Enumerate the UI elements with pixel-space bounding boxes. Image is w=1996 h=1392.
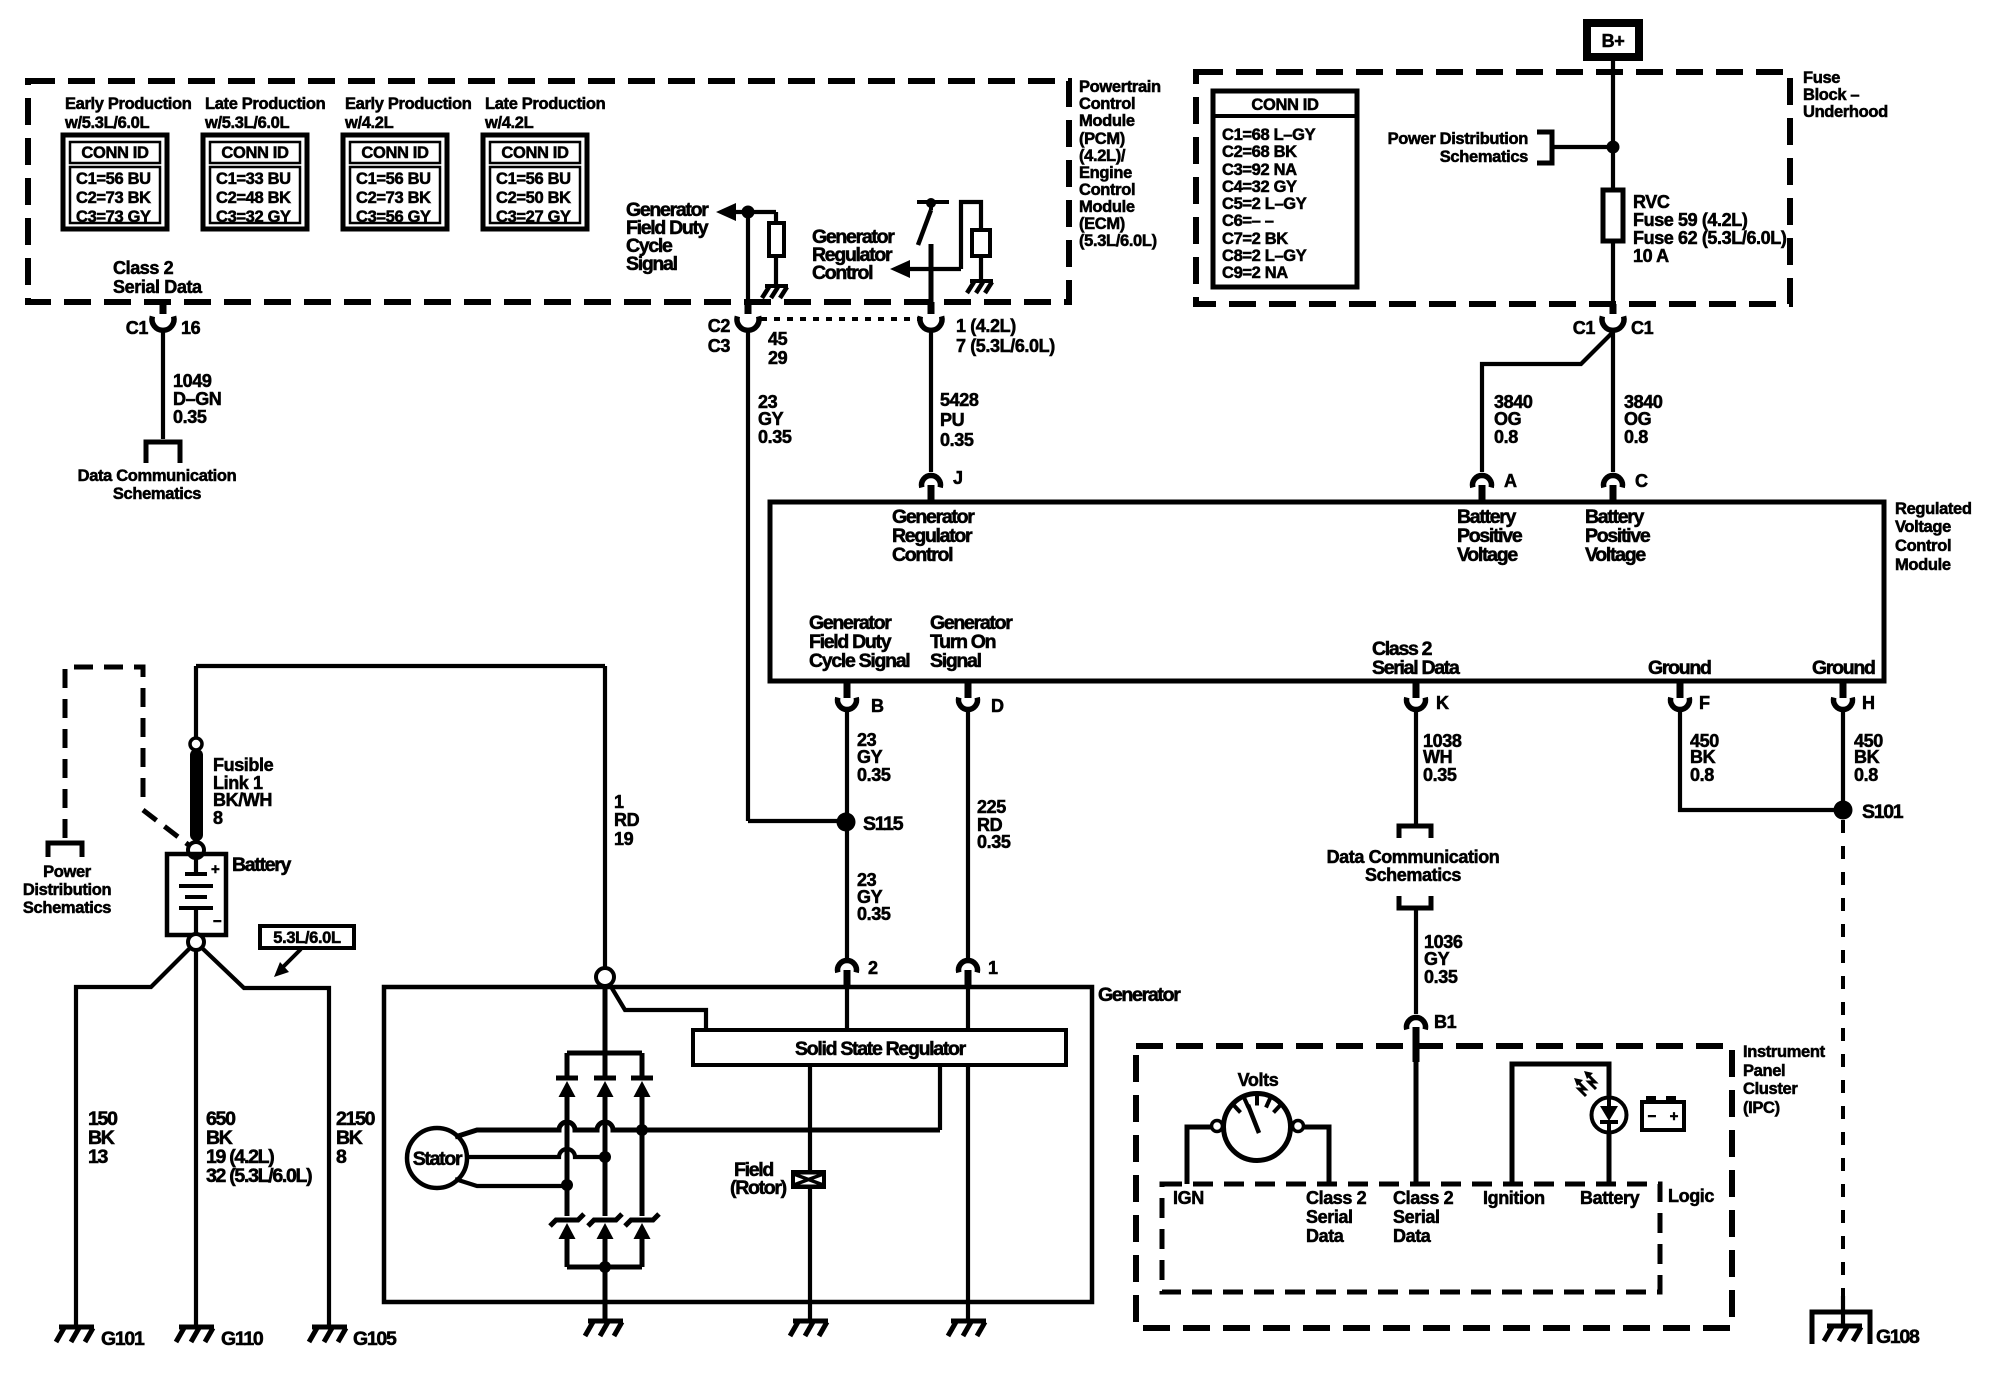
arrow to Generator Regulator Control: [890, 260, 910, 278]
svg-text:B+: B+: [1602, 31, 1625, 51]
node: ring terminal at battery positive: [188, 842, 204, 858]
svg-text:Control: Control: [1895, 537, 1951, 555]
label: Class 2 Serial Data (B1): [1393, 1188, 1454, 1246]
svg-text:PU: PU: [940, 410, 964, 430]
PCM/ECM module dashed box: [28, 81, 1069, 302]
svg-text:8: 8: [336, 1146, 347, 1168]
svg-text:BK: BK: [1690, 747, 1716, 767]
battery B1: [167, 854, 226, 935]
node: ring terminal at generator output: [596, 968, 614, 986]
pin C (RVC module): [1604, 471, 1649, 502]
label: Fuse Block - Underhood: [1803, 69, 1888, 121]
wire regulator to ground (right): [966, 1065, 970, 1321]
off-page bracket (power distribution, battery): [48, 843, 82, 857]
wire from C2/C3 leg over to S115: [748, 819, 846, 823]
dashed leader to fusible link: [143, 810, 190, 846]
svg-text:Module: Module: [1079, 112, 1135, 130]
svg-text:0.8: 0.8: [1854, 765, 1878, 785]
power distribution dashed callout box (battery): [65, 667, 143, 838]
label: Late Production w/4.2L: [484, 95, 606, 132]
svg-text:Class 2: Class 2: [1393, 1188, 1454, 1208]
svg-text:GY: GY: [758, 409, 784, 429]
svg-text:Schematics: Schematics: [1440, 148, 1528, 166]
svg-text:19: 19: [614, 829, 634, 849]
svg-text:C2=73 BK: C2=73 BK: [356, 189, 431, 207]
svg-text:CONN ID: CONN ID: [81, 144, 149, 162]
wire B+ down into fuse block: [1611, 61, 1615, 147]
label: Regulated Voltage Control Module: [1895, 500, 1972, 574]
wire split to pin A: [1482, 332, 1613, 472]
svg-text:Module: Module: [1895, 556, 1951, 574]
wire gauge right to logic (Class 2): [1303, 1127, 1329, 1184]
label: Data Communication Schematics (left): [78, 467, 237, 503]
label: 650 BK 19 (4.2L) 32 (5.3L/6.0L): [206, 1108, 312, 1187]
svg-text:Underhood: Underhood: [1803, 103, 1888, 121]
wire 450 BK 0.8 (pin H to S101): [1841, 710, 1845, 804]
svg-text:0.35: 0.35: [1423, 765, 1457, 785]
svg-text:0.8: 0.8: [1494, 427, 1518, 447]
zener diode D5 (lower middle): [588, 1214, 622, 1267]
svg-text:IGN: IGN: [1173, 1188, 1204, 1208]
stator phase wire 3: [455, 1179, 567, 1186]
label: Generator Regulator Control (PCM): [812, 226, 895, 284]
svg-text:w/5.3L/6.0L: w/5.3L/6.0L: [64, 114, 149, 132]
svg-text:13: 13: [88, 1146, 109, 1168]
svg-text:Serial Data: Serial Data: [1372, 657, 1460, 679]
svg-text:w/5.3L/6.0L: w/5.3L/6.0L: [204, 114, 289, 132]
node: junction at B+ feed: [1607, 141, 1620, 154]
svg-text:29: 29: [768, 348, 788, 368]
svg-text:K: K: [1436, 693, 1449, 713]
fuse RVC Fuse 59/62 10A: [1603, 190, 1623, 241]
svg-text:1: 1: [988, 958, 998, 978]
wire battery positive feed (top run): [196, 664, 605, 668]
ground G108: [1812, 1312, 1920, 1348]
node: splice S101: [1834, 801, 1853, 820]
svg-text:B1: B1: [1434, 1012, 1457, 1032]
svg-text:Data Communication: Data Communication: [78, 467, 237, 485]
svg-text:C5=2 L–GY: C5=2 L–GY: [1222, 195, 1307, 213]
svg-text:0.35: 0.35: [857, 765, 891, 785]
svg-text:C1: C1: [1573, 318, 1596, 338]
svg-text:Data: Data: [1306, 1226, 1345, 1246]
svg-text:(IPC): (IPC): [1743, 1099, 1780, 1117]
svg-text:Voltage: Voltage: [1457, 544, 1518, 566]
wire 450 BK 0.8 (pin F to S101): [1680, 710, 1837, 810]
label: 5428 PU 0.35: [940, 390, 979, 450]
svg-text:Serial: Serial: [1306, 1207, 1353, 1227]
svg-text:Power: Power: [43, 863, 92, 881]
LED indicator lamp: [1592, 1096, 1627, 1133]
label: Early Production w/5.3L/6.0L: [64, 95, 192, 132]
svg-text:C3: C3: [708, 336, 731, 356]
svg-text:C8=2 L–GY: C8=2 L–GY: [1222, 247, 1307, 265]
pin H (RVC module): [1834, 681, 1875, 713]
wire 1036 GY 0.35: [1414, 908, 1418, 1014]
wire 1038 WH 0.35 (pin K down): [1414, 710, 1418, 824]
label: RVC Fuse 59 (4.2L) Fuse 62 (5.3L/6.0L) 10 A: [1633, 192, 1787, 266]
svg-text:Early Production: Early Production: [345, 95, 472, 113]
off-page bracket (data communication, lower): [1399, 896, 1431, 908]
svg-text:S101: S101: [1862, 801, 1904, 823]
wire ignition loop to LED: [1512, 1064, 1609, 1184]
label: 225 RD 0.35: [977, 797, 1011, 852]
svg-text:C1=33 BU: C1=33 BU: [216, 170, 291, 188]
node: junction on field duty wire: [742, 206, 755, 219]
Logic dashed box (IPC): [1162, 1184, 1660, 1292]
svg-text:5428: 5428: [940, 390, 979, 410]
LED illumination arrows: [1574, 1071, 1596, 1096]
svg-text:Class 2: Class 2: [1306, 1188, 1367, 1208]
svg-text:Control: Control: [892, 544, 953, 566]
svg-text:45: 45: [768, 329, 788, 349]
svg-text:Panel: Panel: [1743, 1062, 1785, 1080]
fusible link 1 BK/WH 8: [190, 749, 203, 841]
CONN ID table (fuse block): [1213, 91, 1357, 287]
connector pin B1 (IPC): [1407, 1012, 1457, 1062]
svg-text:Fusible: Fusible: [213, 755, 274, 775]
svg-text:Power Distribution: Power Distribution: [1388, 130, 1529, 148]
svg-text:Distribution: Distribution: [23, 881, 112, 899]
label: Generator Field Duty Cycle Signal (PCM): [626, 199, 709, 275]
svg-text:G101: G101: [101, 1328, 145, 1350]
label: 3840 OG 0.8 (left): [1494, 392, 1533, 447]
svg-text:Fuse 59 (4.2L): Fuse 59 (4.2L): [1633, 210, 1748, 230]
resistor R2 (regulator control): [961, 202, 990, 280]
wire 3840 OG 0.8 to pin C: [1611, 332, 1615, 472]
label: Generator Turn On Signal (module): [930, 612, 1013, 672]
svg-text:B: B: [871, 696, 884, 716]
svg-text:225: 225: [977, 797, 1006, 817]
svg-text:w/4.2L: w/4.2L: [484, 114, 534, 132]
Generator box G1: [384, 987, 1092, 1302]
svg-text:C2=48 BK: C2=48 BK: [216, 189, 291, 207]
wire bracket to junction: [1553, 145, 1613, 149]
zener diode D6 (lower right): [625, 1214, 659, 1267]
svg-text:C1=56 BU: C1=56 BU: [356, 170, 431, 188]
svg-text:C3=27 GY: C3=27 GY: [496, 208, 571, 226]
svg-text:RVC: RVC: [1633, 192, 1670, 212]
label: Late Production w/5.3L/6.0L: [204, 95, 326, 132]
svg-text:w/4.2L: w/4.2L: [344, 114, 394, 132]
wire gauge left to logic (IGN): [1187, 1127, 1212, 1184]
svg-text:Ignition: Ignition: [1483, 1188, 1545, 1208]
svg-text:Powertrain: Powertrain: [1079, 78, 1161, 96]
label: 450 BK 0.8 (pin H): [1854, 731, 1883, 785]
off-page bracket to Data Communication Schematics: [146, 442, 180, 463]
svg-text:Late Production: Late Production: [205, 95, 326, 113]
wire junction to fuse: [1611, 147, 1615, 190]
svg-text:Fuse 62 (5.3L/6.0L): Fuse 62 (5.3L/6.0L): [1633, 228, 1787, 248]
ground G101: [56, 1327, 145, 1350]
zener diode D4 (lower left): [550, 1214, 584, 1267]
stator phase wire 2 (with hop): [467, 1149, 605, 1157]
svg-text:C1=68 L–GY: C1=68 L–GY: [1222, 126, 1316, 144]
svg-text:+: +: [1670, 1108, 1679, 1125]
svg-text:(4.2L)/: (4.2L)/: [1079, 147, 1126, 165]
svg-text:Ground: Ground: [1812, 657, 1875, 679]
ground (generator case, rectifier): [585, 1321, 623, 1336]
Fuse Block - Underhood dashed box: [1196, 72, 1790, 304]
arrow to Generator Field Duty Cycle Signal: [716, 203, 736, 221]
wire generator output to regulator: [610, 985, 706, 1030]
wire 23 GY 0.35 (pin B to S115): [845, 710, 849, 958]
svg-text:Data: Data: [1393, 1226, 1432, 1246]
field rotor winding L1: [791, 1170, 826, 1189]
dotted tie line between connectors: [761, 317, 918, 321]
svg-text:BK: BK: [1854, 747, 1880, 767]
wire pin 2 into regulator: [845, 987, 849, 1030]
svg-text:1 (4.2L): 1 (4.2L): [956, 316, 1016, 336]
svg-text:A: A: [1504, 471, 1517, 491]
svg-text:GY: GY: [1424, 949, 1450, 969]
label: Power Distribution Schematics (battery): [23, 863, 112, 917]
resistor R1 (field duty pull-up): [774, 212, 778, 223]
svg-text:10 A: 10 A: [1633, 246, 1669, 266]
svg-text:Logic: Logic: [1668, 1186, 1714, 1206]
svg-text:0.35: 0.35: [758, 427, 792, 447]
svg-text:RD: RD: [614, 810, 640, 830]
svg-text:−: −: [213, 913, 222, 930]
svg-text:0.35: 0.35: [977, 832, 1011, 852]
svg-text:F: F: [1699, 693, 1710, 713]
svg-text:H: H: [1862, 693, 1875, 713]
label: Class 2 Serial Data (module): [1372, 638, 1460, 679]
svg-text:WH: WH: [1423, 747, 1452, 767]
CONN ID table 4 (Late Production w/4.2L): [483, 135, 587, 229]
svg-text:(PCM): (PCM): [1079, 130, 1125, 148]
wire S101 to G108 (dashed): [1841, 820, 1845, 1296]
svg-text:8: 8: [213, 808, 223, 828]
svg-text:C1=56 BU: C1=56 BU: [76, 170, 151, 188]
label: Field (Rotor): [730, 1159, 787, 1199]
rectifier top bar: [567, 1051, 642, 1056]
wire regulator to field rotor: [808, 1065, 812, 1170]
svg-text:Cluster: Cluster: [1743, 1080, 1798, 1098]
label: 23 GY 0.35 (lower): [857, 870, 891, 924]
wire field rotor to ground: [808, 1189, 812, 1321]
Regulated Voltage Control Module box U1: [770, 502, 1884, 681]
battery telltale symbol: [1642, 1096, 1684, 1130]
svg-text:Control: Control: [812, 262, 873, 284]
stator phase wire 1 (with hops): [455, 1122, 940, 1137]
svg-text:Battery: Battery: [1580, 1188, 1640, 1208]
wire 650 BK (battery to G110): [194, 950, 198, 1327]
svg-text:−: −: [1648, 1108, 1657, 1125]
svg-text:Voltage: Voltage: [1895, 518, 1951, 536]
svg-text:Battery: Battery: [232, 854, 292, 876]
label: 23 GY 0.35: [758, 392, 792, 447]
svg-text:C3=73 GY: C3=73 GY: [76, 208, 151, 226]
node: junction phase 1 at diode D3: [636, 1124, 648, 1136]
svg-text:C4=32 GY: C4=32 GY: [1222, 178, 1297, 196]
svg-text:Signal: Signal: [930, 650, 982, 672]
node: splice S115: [837, 813, 856, 832]
wire from arrow to resistor: [733, 210, 776, 214]
svg-text:GY: GY: [857, 747, 883, 767]
diode D2 (upper middle): [594, 1053, 616, 1216]
node: ring terminal at battery negative: [188, 934, 204, 950]
svg-text:Solid State Regulator: Solid State Regulator: [795, 1038, 967, 1060]
label: Class 2 Serial Data (volts gauge): [1306, 1188, 1367, 1246]
switch SW (regulator control driver): [917, 198, 949, 245]
svg-text:S115: S115: [863, 813, 904, 835]
wire rectifier to generator case ground: [603, 1267, 608, 1321]
off-page bracket (data communication, upper): [1399, 826, 1431, 838]
svg-text:C2=73 BK: C2=73 BK: [76, 189, 151, 207]
svg-text:C3=32 GY: C3=32 GY: [216, 208, 291, 226]
label: 1036 GY 0.35: [1424, 932, 1463, 987]
svg-text:Block –: Block –: [1803, 86, 1859, 104]
B+ power feed box: [1587, 23, 1639, 57]
pin B (RVC module): [838, 681, 885, 716]
svg-text:Signal: Signal: [626, 253, 678, 275]
svg-text:Voltage: Voltage: [1585, 544, 1646, 566]
label: Battery Positive Voltage (pin A): [1457, 506, 1523, 566]
svg-text:Schematics: Schematics: [113, 485, 201, 503]
svg-text:0.8: 0.8: [1690, 765, 1714, 785]
Solid State Regulator box: [693, 1030, 1066, 1065]
pin K (RVC module): [1407, 681, 1450, 713]
label: Class 2 Serial Data (PCM): [113, 258, 203, 297]
ground (generator case, field): [790, 1321, 828, 1336]
pin A (RVC module): [1473, 471, 1518, 502]
ground (PCM internal, regulator control): [967, 281, 993, 293]
svg-text:G105: G105: [353, 1328, 397, 1350]
label: 23 GY 0.35 (upper): [857, 730, 891, 785]
svg-text:C6=– –: C6=– –: [1222, 212, 1274, 230]
svg-text:(5.3L/6.0L): (5.3L/6.0L): [1079, 232, 1157, 250]
svg-text:+: +: [211, 861, 220, 878]
svg-text:32 (5.3L/6.0L): 32 (5.3L/6.0L): [206, 1165, 312, 1187]
svg-text:Engine: Engine: [1079, 164, 1132, 182]
svg-text:C3=56 GY: C3=56 GY: [356, 208, 431, 226]
svg-text:G108: G108: [1876, 1326, 1920, 1348]
CONN ID table 1 (Early Production w/5.3L/6.0L): [63, 135, 167, 229]
svg-text:C2=50 BK: C2=50 BK: [496, 189, 571, 207]
connector pin 1 (4.2L) / 7 (5.3L/6.0L): [920, 302, 1055, 356]
wire 150 BK 13 (battery to G101): [76, 947, 191, 1327]
svg-text:C9=2 NA: C9=2 NA: [1222, 264, 1288, 282]
svg-text:D–GN: D–GN: [173, 389, 221, 409]
svg-text:Class 2: Class 2: [113, 258, 174, 278]
wire 5428 PU 0.35: [929, 332, 933, 472]
arrow from 5.3L/6.0L flag: [274, 949, 301, 977]
svg-text:Volts: Volts: [1238, 1070, 1279, 1090]
label: 2150 BK 8: [336, 1108, 376, 1168]
label: Power Distribution Schematics (fuse block): [1388, 130, 1529, 166]
svg-text:2: 2: [868, 958, 878, 978]
pin J (RVC module): [922, 468, 963, 502]
node: junction phase 3 at diode D1: [561, 1179, 573, 1191]
wire fuse down to connector C1: [1611, 241, 1615, 306]
svg-text:Generator: Generator: [1098, 984, 1181, 1006]
connector C1 pin 16 (PCM Class 2 serial data): [126, 302, 201, 338]
svg-text:0.35: 0.35: [857, 904, 891, 924]
ground (PCM internal, field duty): [762, 286, 788, 298]
wire generator output down to rectifier: [603, 986, 608, 1053]
diode D3 (upper right): [631, 1053, 653, 1216]
volts gauge M1: [1212, 1094, 1304, 1161]
ground (generator case, regulator): [948, 1321, 986, 1336]
wire 2150 BK 8 (battery to G105): [201, 947, 329, 1327]
label: 3840 OG 0.8 (right): [1624, 392, 1663, 447]
wire pin 1 into regulator: [966, 987, 970, 1030]
svg-text:C2: C2: [708, 316, 731, 336]
svg-text:Control: Control: [1079, 95, 1135, 113]
svg-text:C7=2 BK: C7=2 BK: [1222, 230, 1288, 248]
node: junction phase 2 at diode D2: [599, 1151, 611, 1163]
label: 1049 D-GN 0.35: [173, 371, 221, 427]
connector pin 2 (generator): [838, 958, 879, 987]
node: junction rectifier bottom: [599, 1261, 611, 1273]
svg-text:C: C: [1635, 471, 1648, 491]
label: Early Production w/4.2L: [344, 95, 472, 132]
svg-text:Stator: Stator: [413, 1148, 463, 1170]
label: Generator Field Duty Cycle Signal (module): [809, 612, 910, 672]
label: Instrument Panel Cluster (IPC): [1743, 1043, 1826, 1117]
svg-text:Fuse: Fuse: [1803, 69, 1840, 87]
wire from switch down to connector: [929, 244, 934, 306]
svg-text:1: 1: [614, 792, 624, 812]
svg-text:OG: OG: [1494, 409, 1521, 429]
CONN ID table 3 (Early Production w/4.2L): [343, 135, 447, 229]
label: 450 BK 0.8 (pin F): [1690, 731, 1719, 785]
stator S: [407, 1128, 467, 1188]
svg-text:Cycle Signal: Cycle Signal: [809, 650, 910, 672]
svg-text:C2=68 BK: C2=68 BK: [1222, 143, 1297, 161]
Instrument Panel Cluster dashed box: [1136, 1046, 1732, 1328]
wire LED to logic (Battery): [1607, 1132, 1612, 1184]
wire B1 to logic (Class 2): [1414, 1062, 1419, 1184]
label: Fusible Link 1 BK/WH 8: [213, 755, 274, 828]
svg-text:Serial Data: Serial Data: [113, 277, 203, 297]
svg-text:Late Production: Late Production: [485, 95, 606, 113]
svg-text:0.35: 0.35: [940, 430, 974, 450]
svg-text:Early Production: Early Production: [65, 95, 192, 113]
svg-text:Module: Module: [1079, 198, 1135, 216]
svg-text:0.35: 0.35: [1424, 967, 1458, 987]
svg-text:Control: Control: [1079, 181, 1135, 199]
wire phase 1 up to regulator: [938, 1065, 942, 1130]
diode D1 (upper left): [556, 1053, 578, 1216]
svg-text:(Rotor): (Rotor): [730, 1177, 787, 1199]
svg-text:0.35: 0.35: [173, 407, 207, 427]
svg-text:D: D: [991, 696, 1004, 716]
label: Generator Regulator Control (module): [892, 506, 975, 566]
svg-text:1049: 1049: [173, 371, 212, 391]
5.3L/6.0L flag box: [260, 926, 354, 948]
wire 1 RD 19 (battery feed to generator): [603, 666, 607, 968]
CONN ID table 2 (Late Production w/5.3L/6.0L): [203, 135, 307, 229]
svg-text:Data Communication: Data Communication: [1327, 847, 1500, 867]
rectifier bottom bar: [567, 1265, 642, 1270]
connector C2/C3 pins 45/29: [708, 302, 788, 368]
svg-text:5.3L/6.0L: 5.3L/6.0L: [273, 929, 341, 947]
svg-text:Regulated: Regulated: [1895, 500, 1972, 518]
svg-text:CONN ID: CONN ID: [221, 144, 289, 162]
svg-text:16: 16: [181, 318, 201, 338]
label: Battery Positive Voltage (pin C): [1585, 506, 1651, 566]
svg-text:Schematics: Schematics: [1365, 865, 1461, 885]
svg-text:Serial: Serial: [1393, 1207, 1440, 1227]
svg-text:C1: C1: [126, 318, 149, 338]
label: Powertrain Control Module (PCM)(4.2L)/Engine Control Module (ECM)(5.3L/6.0L): [1079, 78, 1161, 250]
node: ring terminal at fusible link top: [190, 738, 202, 750]
off-page bracket (power distribution): [1537, 132, 1552, 163]
svg-text:C1: C1: [1631, 318, 1654, 338]
svg-text:G110: G110: [221, 1328, 264, 1350]
